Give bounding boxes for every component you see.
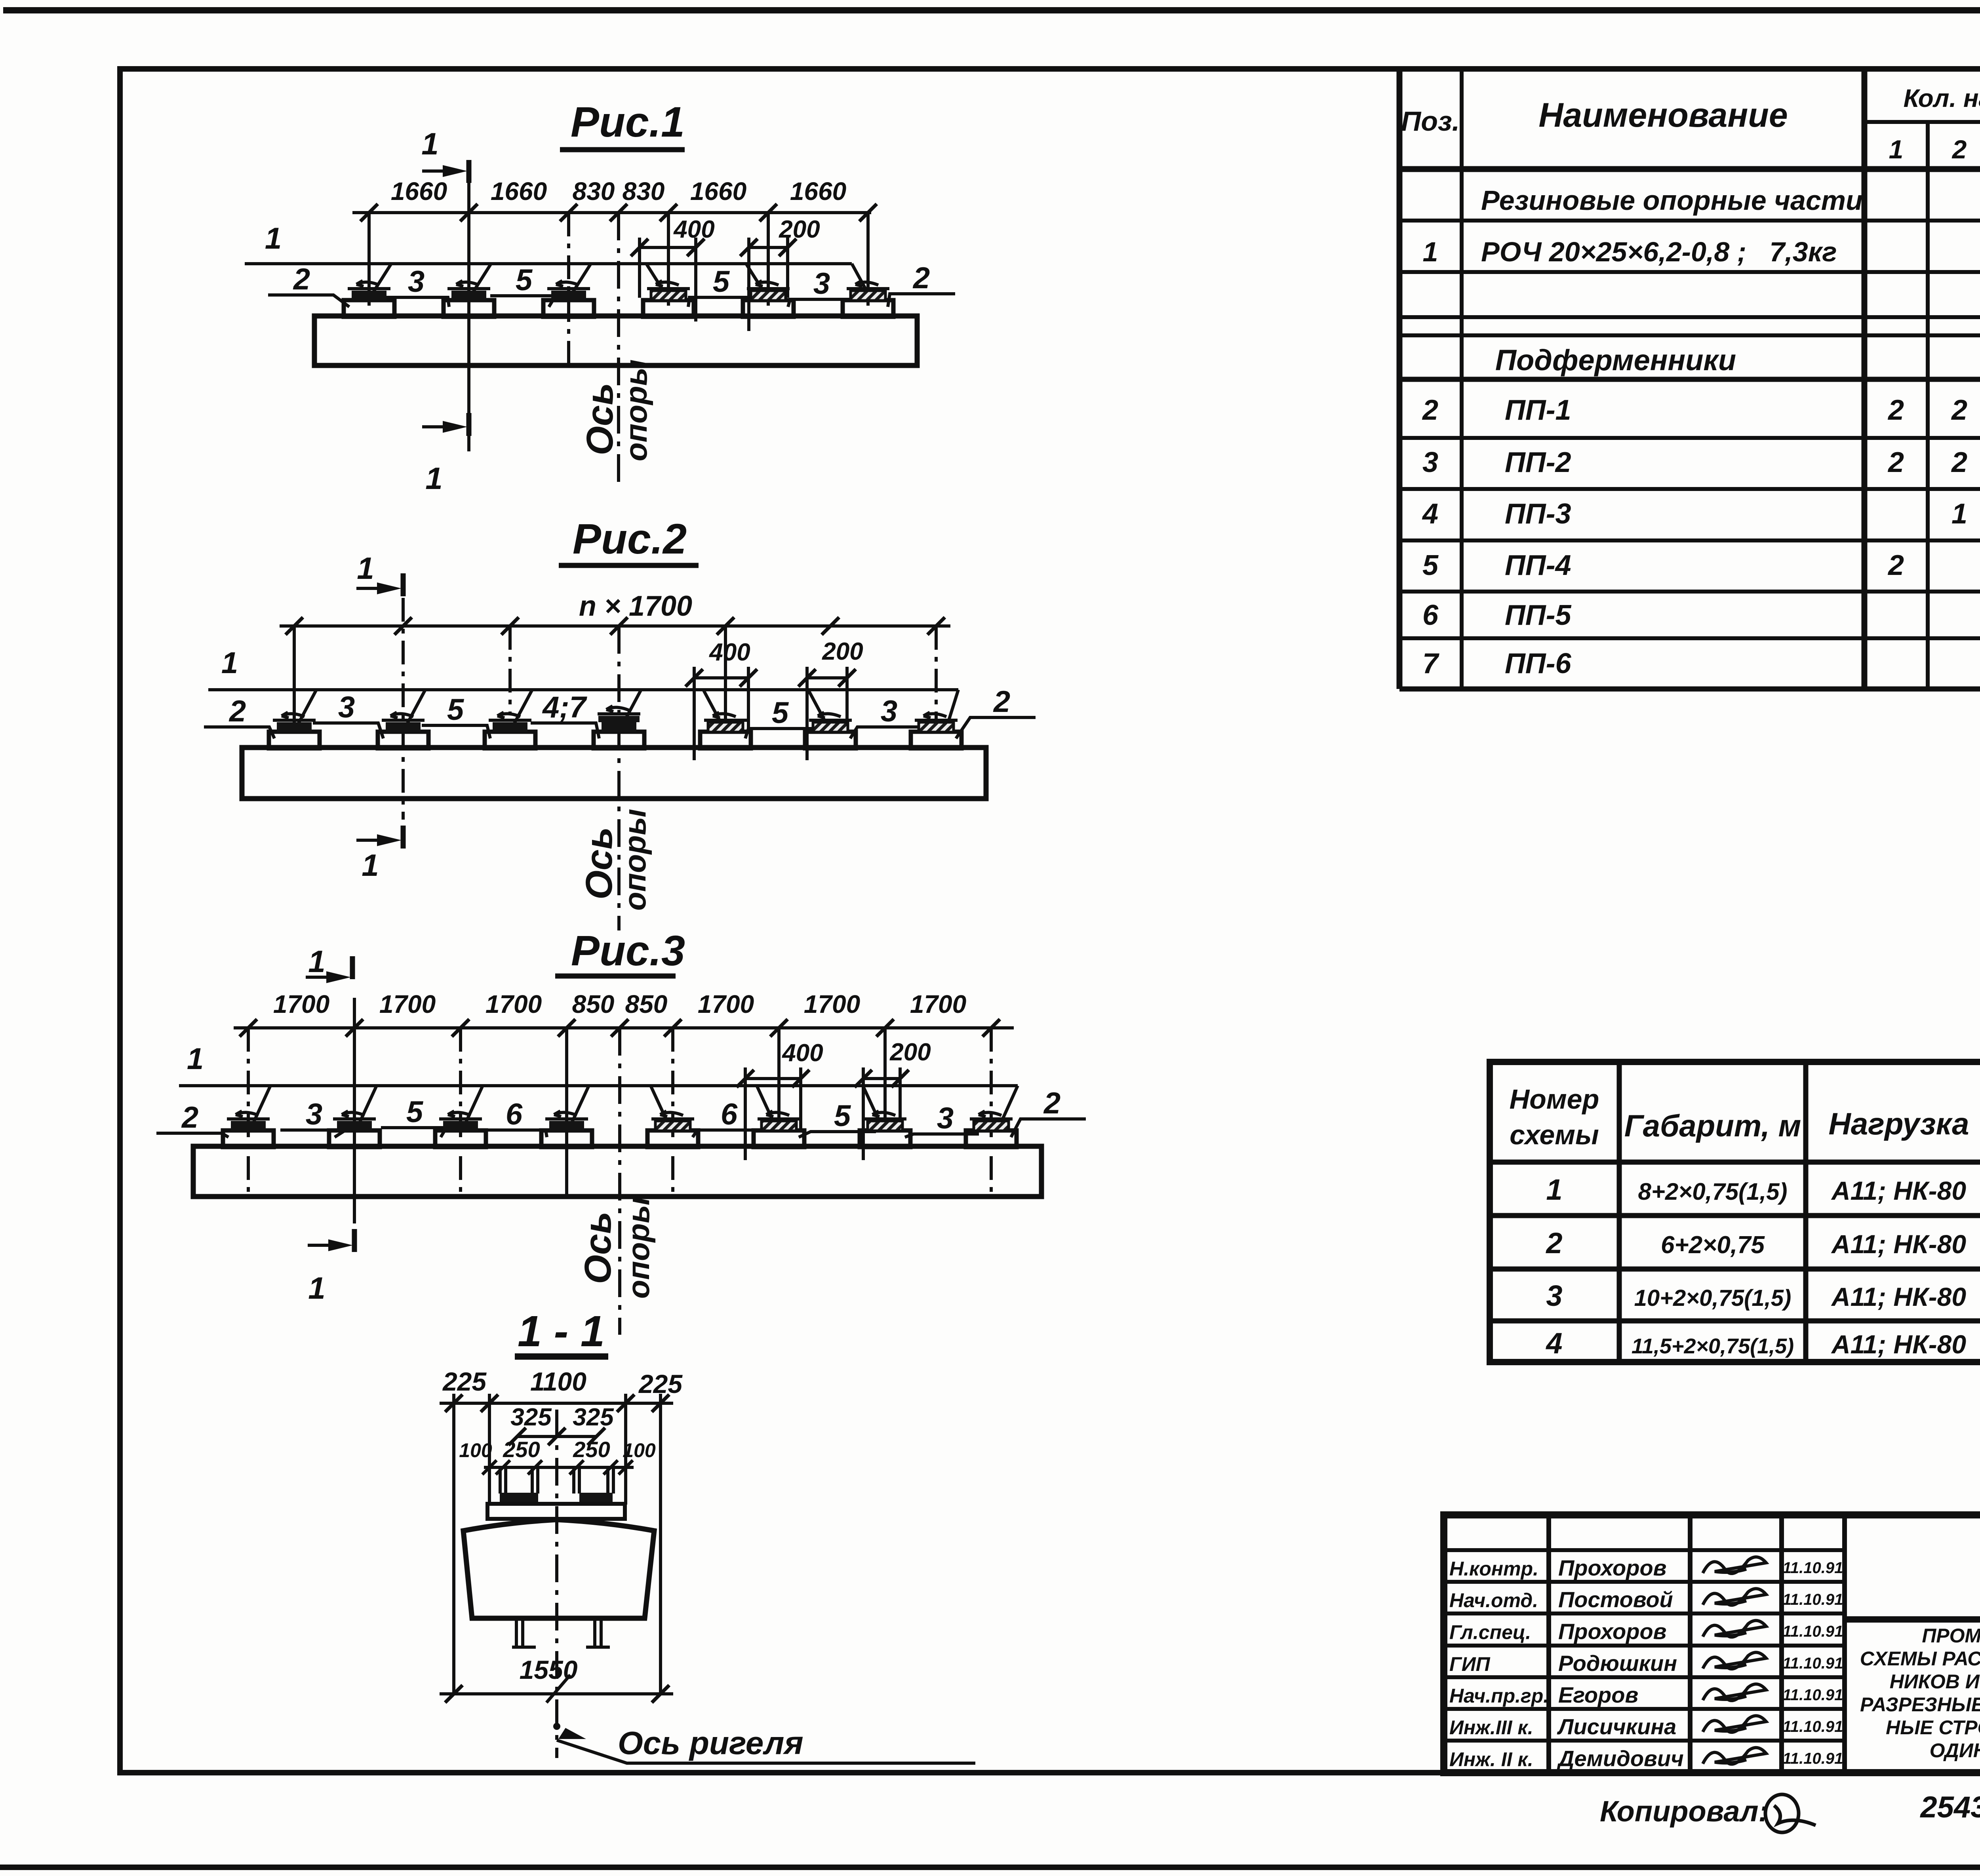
svg-text:Нагрузка: Нагрузка (1829, 1106, 1969, 1141)
svg-text:3: 3 (1546, 1279, 1562, 1312)
sec cap plate (487, 1504, 625, 1519)
svg-text:ПП-4: ПП-4 (1505, 550, 1571, 581)
svg-text:Рис.3: Рис.3 (571, 927, 685, 974)
svg-text:2: 2 (1887, 394, 1904, 426)
fig3 extension lines (248, 998, 991, 1223)
svg-text:830: 830 (623, 177, 665, 205)
svg-text:11,5+2×0,75(1,5): 11,5+2×0,75(1,5) (1632, 1334, 1794, 1358)
svg-text:3: 3 (813, 267, 830, 301)
svg-text:Ось: Ось (577, 1212, 619, 1284)
outer bottom border line (0, 1865, 1980, 1870)
svg-text:Егоров: Егоров (1558, 1682, 1638, 1707)
svg-text:1660: 1660 (491, 177, 547, 205)
svg-text:5: 5 (1422, 550, 1439, 581)
svg-text:8+2×0,75(1,5): 8+2×0,75(1,5) (1638, 1178, 1788, 1205)
svg-text:400: 400 (708, 639, 750, 666)
fig1 подферменник 4 (643, 281, 694, 317)
svg-text:1700: 1700 (910, 990, 966, 1018)
fig2 section marker top (356, 551, 403, 596)
svg-text:Инж. II к.: Инж. II к. (1449, 1749, 1533, 1771)
sec dim 225 1100 225 (440, 1367, 683, 1694)
svg-text:ПП-1: ПП-1 (1505, 394, 1571, 426)
fig3 leader item 1 (179, 1042, 1018, 1128)
title text block (1860, 1619, 1980, 1773)
parts table grid (1399, 69, 1980, 689)
svg-text:опоры: опоры (619, 360, 653, 461)
fig1 подферменник 6 (843, 281, 893, 317)
svg-text:2: 2 (1043, 1086, 1060, 1120)
fig3 section marker bottom (308, 1229, 354, 1305)
svg-text:Нач.отд.: Нач.отд. (1449, 1589, 1538, 1612)
fig1 dim 200 (740, 216, 820, 331)
svg-text:1: 1 (221, 646, 238, 680)
svg-text:1660: 1660 (790, 177, 846, 205)
svg-text:200: 200 (822, 638, 863, 665)
svg-text:ПП-6: ПП-6 (1505, 648, 1572, 679)
svg-text:200: 200 (779, 216, 820, 243)
svg-text:опоры: опоры (621, 1197, 656, 1299)
fig3 dim 400 (737, 1039, 823, 1160)
svg-text:Ось: Ось (578, 827, 620, 900)
outer top border line (3, 7, 1980, 13)
svg-text:1700: 1700 (485, 990, 542, 1018)
svg-text:11.10.91: 11.10.91 (1783, 1623, 1843, 1640)
svg-text:2: 2 (1951, 135, 1967, 164)
svg-text:325: 325 (573, 1404, 614, 1431)
svg-text:3: 3 (306, 1098, 322, 1131)
fig2 подферменник 6 (805, 712, 856, 748)
parts table headers (1401, 84, 1980, 165)
fig1 beam ригель (314, 316, 917, 365)
svg-text:25430-03: 25430-03 (1919, 1790, 1980, 1824)
sec dim 100 250 250 100 (459, 1437, 656, 1475)
fig1 подферменник 3 (543, 281, 594, 317)
fig3 section marker top (306, 944, 352, 983)
svg-text:5: 5 (713, 265, 730, 299)
sec pier legs (512, 1618, 610, 1647)
fig3 beam ригель (193, 1146, 1041, 1197)
svg-text:СХЕМЫ РАСПОЛОЖЕНИЯ ПОДФЕРМЕН-: СХЕМЫ РАСПОЛОЖЕНИЯ ПОДФЕРМЕН- (1860, 1648, 1980, 1670)
fig2 подферменник 2 (378, 712, 428, 748)
svg-text:Лисичкина: Лисичкина (1557, 1714, 1676, 1739)
svg-text:Рис.1: Рис.1 (571, 98, 685, 146)
fig2 подферменник 1 (269, 712, 320, 748)
sec dim 325 325 (508, 1404, 614, 1445)
svg-text:Копировал:: Копировал: (1600, 1795, 1768, 1828)
svg-text:100: 100 (623, 1439, 656, 1461)
svg-text:225: 225 (442, 1367, 487, 1396)
fig1 leader item 1 (245, 222, 866, 294)
копировал line (1600, 1787, 1980, 1832)
svg-text:1700: 1700 (698, 990, 754, 1018)
svg-text:11.10.91: 11.10.91 (1783, 1591, 1843, 1608)
svg-text:10+2×0,75(1,5): 10+2×0,75(1,5) (1634, 1285, 1792, 1311)
title block signatures rows (1449, 1555, 1843, 1771)
fig3 подферменник 6 (754, 1111, 804, 1147)
svg-text:Инж.III к.: Инж.III к. (1449, 1716, 1533, 1739)
fig2 axis line (617, 626, 621, 930)
svg-text:НЫЕ СТРОЕНИЯ СЕРИИ 3.503.1-73.: НЫЕ СТРОЕНИЯ СЕРИИ 3.503.1-73. (1886, 1716, 1980, 1739)
svg-text:Подферменники: Подферменники (1495, 344, 1736, 377)
fig2 dim 400 (685, 639, 757, 760)
schemes table grid (1490, 1062, 1980, 1362)
svg-text:Кол. на схему: Кол. на схему (1904, 84, 1980, 112)
fig3 подферменник 2 (329, 1111, 380, 1147)
fig1 dim 400 (631, 216, 715, 322)
svg-text:3: 3 (408, 265, 425, 299)
svg-text:А11; НК-80: А11; НК-80 (1831, 1176, 1966, 1205)
fig3 подферменник 7 (860, 1111, 910, 1147)
svg-text:2: 2 (1545, 1227, 1562, 1260)
svg-text:Поз.: Поз. (1401, 106, 1460, 137)
svg-text:2: 2 (1887, 447, 1904, 478)
svg-text:850: 850 (572, 990, 615, 1018)
svg-text:РОЧ 20×25×6,2-0,8 ; 7,3кг: РОЧ 20×25×6,2-0,8 ; 7,3кг (1481, 236, 1837, 267)
fig1 подферменник 1 (344, 281, 394, 317)
fig3 axis line (618, 1028, 621, 1335)
svg-text:6+2×0,75: 6+2×0,75 (1661, 1231, 1765, 1259)
schemes table rows (1545, 1173, 1980, 1360)
svg-text:200: 200 (889, 1039, 931, 1066)
svg-text:11.10.91: 11.10.91 (1783, 1718, 1843, 1735)
svg-text:1: 1 (357, 551, 374, 586)
sec anchor bolts (500, 1467, 613, 1494)
svg-text:250: 250 (573, 1437, 610, 1462)
svg-text:3: 3 (937, 1102, 954, 1135)
svg-text:6: 6 (506, 1098, 523, 1131)
fig2 подферменник 4 (594, 706, 644, 748)
svg-text:11.10.91: 11.10.91 (1783, 1686, 1843, 1704)
svg-text:ОДИНАРНЫЕ ГАБАРИТЫ.: ОДИНАРНЫЕ ГАБАРИТЫ. (1930, 1739, 1980, 1762)
svg-text:2: 2 (993, 685, 1010, 719)
svg-text:400: 400 (673, 216, 714, 243)
svg-text:Наименование: Наименование (1538, 96, 1788, 134)
svg-text:1 - 1: 1 - 1 (518, 1307, 605, 1356)
svg-text:100: 100 (459, 1439, 492, 1461)
svg-text:6: 6 (721, 1098, 738, 1131)
fig3 подферменник 3 (435, 1111, 486, 1147)
svg-text:250: 250 (503, 1437, 540, 1462)
sec axis ось ригеля (553, 1410, 975, 1763)
svg-text:850: 850 (625, 990, 668, 1018)
svg-text:Нач.пр.гр.: Нач.пр.гр. (1449, 1685, 1549, 1707)
svg-text:1700: 1700 (273, 990, 329, 1018)
fig2 beam ригель (242, 748, 986, 799)
svg-text:3: 3 (1422, 447, 1438, 478)
schemes table headers (1510, 1084, 1980, 1150)
svg-text:4: 4 (1545, 1327, 1562, 1360)
fig3 подферменник 1 (223, 1111, 274, 1147)
svg-text:ПП-3: ПП-3 (1505, 498, 1571, 530)
svg-text:6: 6 (1422, 599, 1439, 631)
svg-text:1700: 1700 (379, 990, 436, 1018)
fig1 section cut line 1-1 (467, 166, 470, 451)
svg-text:Прохоров: Прохоров (1558, 1619, 1667, 1644)
svg-text:1: 1 (421, 126, 438, 161)
svg-text:ПРОМЕЖУТОЧНАЯ ОПОРА.: ПРОМЕЖУТОЧНАЯ ОПОРА. (1922, 1625, 1980, 1647)
fig3 dimension line (234, 990, 1014, 1037)
svg-text:1: 1 (308, 1271, 325, 1305)
sec bearing pads (500, 1493, 538, 1504)
fig1 dimension line (352, 177, 877, 221)
fig2 leader item 1 (208, 646, 958, 728)
svg-text:11.10.91: 11.10.91 (1783, 1655, 1843, 1672)
svg-text:Гл.спец.: Гл.спец. (1449, 1621, 1531, 1644)
svg-text:2: 2 (912, 261, 930, 295)
svg-text:n × 1700: n × 1700 (579, 590, 692, 622)
fig2 extension lines (294, 598, 936, 820)
svg-text:5: 5 (447, 693, 465, 727)
svg-text:1: 1 (187, 1042, 204, 1076)
svg-text:2: 2 (1951, 447, 1967, 478)
svg-text:Н.контр.: Н.контр. (1449, 1558, 1538, 1580)
title block left grid (1444, 1515, 1845, 1773)
svg-text:РАЗРЕЗНЫЕ И НЕРАЗРЕЗНЫЕ ПРОЛЕТ: РАЗРЕЗНЫЕ И НЕРАЗРЕЗНЫЕ ПРОЛЕТ- (1860, 1693, 1980, 1716)
svg-text:830: 830 (573, 177, 615, 205)
fig1 axis line ось опоры (617, 213, 620, 485)
svg-text:ГИП: ГИП (1449, 1653, 1491, 1675)
fig2 dim 200 (798, 638, 863, 760)
svg-text:3: 3 (338, 691, 355, 724)
svg-text:1: 1 (362, 848, 379, 883)
svg-text:1: 1 (1423, 236, 1438, 267)
svg-text:Родюшкин: Родюшкин (1558, 1651, 1677, 1676)
svg-text:Резиновые опорные части: Резиновые опорные части (1481, 185, 1863, 216)
svg-text:5: 5 (406, 1095, 424, 1129)
svg-text:НИКОВ И ОПОРНЫХ ЧАСТЕЙ ПОД: НИКОВ И ОПОРНЫХ ЧАСТЕЙ ПОД (1890, 1670, 1980, 1693)
svg-text:1: 1 (425, 461, 442, 496)
svg-text:2: 2 (228, 694, 246, 728)
svg-text:5: 5 (772, 696, 789, 730)
svg-text:1: 1 (1889, 135, 1904, 164)
svg-text:1700: 1700 (804, 990, 860, 1018)
svg-text:ПП-2: ПП-2 (1505, 447, 1571, 478)
svg-text:схемы: схемы (1510, 1119, 1599, 1150)
svg-text:Ось ригеля: Ось ригеля (618, 1725, 803, 1761)
svg-text:4;7: 4;7 (542, 691, 588, 724)
fig3 dim 200 (855, 1039, 931, 1160)
svg-text:1660: 1660 (391, 177, 447, 205)
svg-text:2: 2 (293, 263, 310, 296)
svg-text:2: 2 (181, 1101, 198, 1134)
svg-text:Габарит, м: Габарит, м (1624, 1108, 1801, 1143)
svg-text:А11; НК-80: А11; НК-80 (1831, 1229, 1966, 1259)
svg-text:Рис.2: Рис.2 (573, 515, 687, 563)
svg-text:1100: 1100 (530, 1367, 586, 1396)
svg-text:1: 1 (308, 944, 325, 979)
svg-text:7: 7 (1422, 648, 1439, 679)
svg-text:1: 1 (265, 222, 282, 255)
svg-text:2: 2 (1951, 394, 1967, 426)
fig2 dimension line (280, 617, 950, 635)
svg-text:2: 2 (1422, 394, 1438, 426)
svg-text:Ось: Ось (579, 383, 621, 455)
svg-text:Прохоров: Прохоров (1558, 1555, 1667, 1580)
fig1 section marker bottom (422, 413, 469, 496)
sec dim 1550 (440, 1655, 673, 1703)
fig3 подферменник 4 (541, 1111, 592, 1147)
fig3 подферменник 8 (966, 1111, 1017, 1147)
svg-text:1: 1 (1951, 498, 1967, 530)
fig2 подферменник 3 (485, 712, 535, 748)
sec pier cap body (463, 1520, 654, 1618)
svg-text:Демидович: Демидович (1557, 1746, 1684, 1771)
svg-text:11.10.91: 11.10.91 (1783, 1750, 1843, 1768)
svg-text:Номер: Номер (1510, 1084, 1599, 1115)
svg-text:5: 5 (834, 1099, 851, 1133)
fig2 подферменник 5 (700, 712, 751, 748)
svg-text:1: 1 (1546, 1173, 1562, 1206)
fig1 подферменник 2 (444, 281, 494, 317)
svg-text:5: 5 (516, 263, 533, 297)
fig1 section marker top (421, 126, 469, 183)
svg-text:Постовой: Постовой (1558, 1587, 1673, 1612)
svg-text:1660: 1660 (690, 177, 746, 205)
svg-text:11.10.91: 11.10.91 (1783, 1559, 1843, 1577)
parts table rows text (1422, 185, 1980, 679)
svg-text:4: 4 (1422, 498, 1438, 530)
svg-text:ПП-5: ПП-5 (1505, 599, 1572, 631)
svg-text:опоры: опоры (617, 809, 652, 911)
svg-text:3: 3 (881, 694, 897, 728)
title block outer frame (1444, 1515, 1980, 1773)
svg-text:400: 400 (781, 1039, 823, 1067)
svg-text:2: 2 (1887, 550, 1904, 581)
fig2 подферменник 7 (911, 712, 961, 748)
svg-text:325: 325 (510, 1404, 552, 1431)
fig1 extension lines (369, 213, 868, 365)
svg-text:А11; НК-80: А11; НК-80 (1831, 1282, 1966, 1311)
fig1 подферменник 5 (743, 281, 794, 317)
svg-text:1550: 1550 (520, 1655, 578, 1684)
fig3 подферменник 5 (647, 1111, 698, 1147)
svg-text:А11; НК-80: А11; НК-80 (1831, 1330, 1966, 1359)
fig2 section marker bottom (356, 826, 403, 883)
